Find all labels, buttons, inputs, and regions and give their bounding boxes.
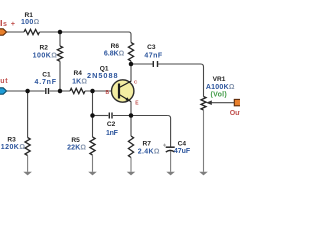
- svg-text:120KΩ: 120KΩ: [1, 144, 26, 151]
- svg-text:C1: C1: [42, 71, 51, 78]
- svg-text:E: E: [135, 101, 139, 107]
- svg-text:s +: s +: [3, 21, 16, 28]
- svg-text:2N5088: 2N5088: [87, 71, 119, 80]
- svg-text:22KΩ: 22KΩ: [67, 145, 86, 152]
- svg-text:R3: R3: [7, 137, 16, 144]
- svg-text:R2: R2: [40, 44, 49, 51]
- svg-text:B: B: [106, 90, 110, 96]
- svg-text:R5: R5: [71, 137, 80, 144]
- svg-text:47uF: 47uF: [174, 148, 191, 155]
- svg-text:Out: Out: [230, 110, 240, 117]
- svg-text:C3: C3: [147, 44, 156, 51]
- svg-text:C4: C4: [178, 140, 187, 147]
- svg-text:R1: R1: [25, 12, 34, 19]
- svg-text:4.7nF: 4.7nF: [35, 79, 57, 86]
- svg-text:47nF: 47nF: [144, 52, 162, 59]
- svg-text:2.4KΩ: 2.4KΩ: [138, 148, 160, 155]
- svg-text:100KΩ: 100KΩ: [33, 52, 58, 59]
- svg-text:ut: ut: [0, 78, 8, 85]
- svg-text:R6: R6: [111, 43, 120, 50]
- svg-text:C2: C2: [107, 121, 116, 128]
- svg-text:1nF: 1nF: [106, 130, 119, 137]
- svg-text:1KΩ: 1KΩ: [72, 78, 87, 85]
- svg-text:100Ω: 100Ω: [21, 19, 40, 26]
- svg-text:A100KΩ: A100KΩ: [206, 84, 235, 91]
- svg-text:(Vol): (Vol): [211, 92, 228, 99]
- svg-text:C: C: [134, 79, 138, 85]
- svg-text:R7: R7: [142, 141, 151, 148]
- svg-text:R4: R4: [73, 70, 82, 77]
- svg-text:VR1: VR1: [213, 76, 226, 83]
- svg-text:6.8KΩ: 6.8KΩ: [104, 51, 125, 58]
